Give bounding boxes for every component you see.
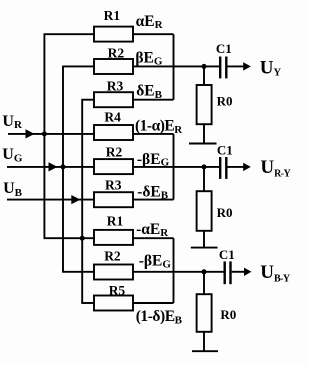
junction dot node U_R / L1 (42, 131, 47, 136)
svg-text:R1: R1 (104, 8, 121, 23)
wire row3 left (81, 99, 94, 101)
ground (output R-Y) (191, 247, 218, 249)
junction dot node B-Y (202, 269, 207, 274)
wire row7 left (44, 237, 95, 239)
junction dot row7 / L3 (80, 236, 85, 241)
wire R0c to ground (203, 332, 205, 351)
wire cap C1c to arrow (232, 271, 245, 273)
wire row9 right (133, 302, 174, 304)
bus L1 (U_R net vertical) (43, 34, 45, 238)
resistor R0 (output R-Y) (197, 191, 212, 231)
junction dot node R-Y (202, 164, 207, 169)
wire row9 left (81, 302, 94, 304)
svg-text:R3: R3 (105, 178, 122, 193)
output arrow Y (243, 62, 251, 70)
svg-text:R0: R0 (217, 205, 233, 220)
wire node Y to R0a (203, 66, 205, 85)
capacitor C1 (output B-Y) plate 2 (229, 261, 231, 284)
wire row2 left (62, 65, 94, 67)
resistor R2 (row5) (94, 159, 133, 174)
svg-text:R5: R5 (109, 283, 126, 298)
resistor R3 (row3) (94, 92, 133, 107)
wire row1 left (44, 33, 95, 35)
wire row1 right (133, 33, 174, 35)
capacitor C1 (output R-Y) plate 1 (219, 157, 221, 179)
svg-text:C1: C1 (219, 247, 235, 262)
wire U_G input lead (7, 166, 94, 168)
wire row6 right (133, 199, 174, 201)
output arrow R-Y (243, 163, 251, 171)
collector vertical group B (173, 134, 175, 200)
junction dot node U_G / L2 (61, 164, 66, 169)
svg-text:R2: R2 (106, 145, 123, 160)
wire cap C1b to arrow (228, 166, 245, 168)
wire node R-Y to R0b (203, 167, 205, 191)
bus L3 (U_B net vertical) (81, 100, 83, 303)
capacitor C1 (output Y) plate 1 (219, 57, 221, 79)
svg-text:R2: R2 (104, 248, 121, 263)
wire row5 right to cap C1b (133, 166, 220, 168)
wire row3 right (133, 99, 174, 101)
svg-text:R3: R3 (107, 78, 124, 93)
input arrow U_R (26, 129, 35, 138)
capacitor C1 (output B-Y) plate 1 (223, 261, 225, 284)
svg-text:R0: R0 (217, 93, 233, 108)
resistor R3 (row6) (94, 192, 133, 207)
capacitor C1 (output R-Y) plate 2 (225, 157, 227, 179)
output arrow B-Y (244, 268, 251, 276)
wire row4 right (133, 133, 174, 135)
wire R0b to ground (203, 231, 205, 248)
wire cap C1a to arrow (228, 65, 245, 67)
resistor R1 (row7) (94, 230, 133, 245)
resistor R0 (output B-Y) (197, 294, 212, 332)
wire node B-Y to R0c (203, 272, 205, 294)
wire U_R input lead (8, 133, 94, 135)
svg-text:R0: R0 (220, 307, 236, 322)
resistor R2 (row2) (94, 59, 133, 74)
ground (output B-Y) (192, 350, 218, 352)
resistor R4 (row4) (94, 125, 133, 140)
collector vertical group A (173, 34, 175, 100)
collector vertical group C (173, 238, 175, 303)
bus L2 (U_G net vertical) (62, 66, 64, 271)
wire row8 left (62, 271, 94, 273)
wire row7 right (133, 237, 174, 239)
ground (output Y) (189, 143, 217, 145)
input arrow U_B (71, 195, 80, 204)
wire row2 right to cap C1a (133, 65, 220, 67)
wire row8 right to cap C1c (133, 271, 225, 273)
resistor R0 (output Y) (197, 85, 212, 124)
svg-text:C1: C1 (216, 41, 232, 56)
svg-text:R4: R4 (104, 110, 121, 125)
svg-text:C1: C1 (217, 143, 233, 158)
resistor R2 (row8) (94, 265, 133, 280)
wire R0a to ground (203, 124, 205, 143)
svg-text:R1: R1 (107, 214, 124, 229)
resistor R5 (row9) (94, 296, 133, 311)
resistor R1 (row1) (94, 27, 133, 42)
junction dot node Y (202, 64, 207, 69)
input arrow U_G (49, 162, 58, 171)
svg-text:R2: R2 (108, 46, 125, 61)
capacitor C1 (output Y) plate 2 (225, 57, 227, 79)
wire U_B input lead (7, 199, 94, 201)
